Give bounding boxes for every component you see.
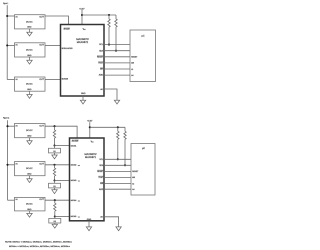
svg-text:A0: A0 xyxy=(132,188,134,191)
svg-text:DC-DC: DC-DC xyxy=(26,129,33,132)
svg-text:MON4/5: MON4/5 xyxy=(62,77,69,80)
svg-text:DC-DC: DC-DC xyxy=(26,203,33,206)
input bus (fig1) xyxy=(6,5,8,79)
microcontroller uC (fig1) xyxy=(130,30,156,82)
wire bus to DC-DC2 IN (fig2) xyxy=(8,164,15,166)
wire bus to DC-DC1 IN xyxy=(7,15,14,17)
input bus (fig2) xyxy=(7,120,9,200)
svg-text:MON2: MON2 xyxy=(71,164,76,167)
ground A0 (fig2) xyxy=(116,227,121,231)
DC-DC converter 2 (fig1) xyxy=(15,43,46,57)
wire RESET (fig1) xyxy=(104,56,130,58)
svg-text:MAX6871: MAX6871 xyxy=(77,41,89,44)
svg-text:Figure 2.: Figure 2. xyxy=(3,117,10,120)
wire SDA (fig2) xyxy=(104,164,131,166)
svg-text:SDA: SDA xyxy=(99,164,103,167)
node divider3 tap junction xyxy=(54,199,56,201)
wire A0 to ground (fig1) xyxy=(104,89,117,100)
ground DC-DC1 (fig1) xyxy=(27,29,32,36)
wire bus to DC-DC1 IN (fig2) xyxy=(8,125,15,127)
wire divider3 node to MON5 xyxy=(55,216,70,218)
svg-text:MR: MR xyxy=(100,68,103,71)
ground DC-DC2 (fig2) xyxy=(27,176,32,183)
wire DC-DC3 OUT to MON4 (fig2) xyxy=(45,199,70,201)
node +3.3V (fig2) xyxy=(87,120,93,139)
svg-text:OUT: OUT xyxy=(39,44,44,47)
wire A0 to ground (fig2) xyxy=(104,217,119,227)
svg-text:R2: R2 xyxy=(53,185,55,188)
wire ADD (fig2) xyxy=(104,188,131,190)
svg-text:OUT: OUT xyxy=(39,162,44,165)
svg-text:GND: GND xyxy=(27,54,32,57)
resistor divider3 top (fig2) xyxy=(54,200,56,217)
svg-text:GND: GND xyxy=(81,92,86,95)
resistor divider3 bottom box (fig2) xyxy=(49,217,61,225)
node rail/R1 junction xyxy=(108,14,110,16)
svg-text:GND: GND xyxy=(27,26,32,29)
ground IC2 GND pin xyxy=(86,221,91,231)
DC-DC converter 3 (fig1) xyxy=(15,77,46,91)
svg-text:MON1–MON3: MON1–MON3 xyxy=(62,47,73,50)
svg-text:MAX6871: MAX6871 xyxy=(85,156,97,159)
svg-text:A0: A0 xyxy=(131,74,133,77)
DC-DC converter 1 (fig1) xyxy=(15,15,46,29)
node junction bus/DC-DC1 xyxy=(6,15,8,17)
svg-text:OUT: OUT xyxy=(39,124,44,127)
svg-text:R2: R2 xyxy=(53,150,55,153)
svg-text:DC-DC: DC-DC xyxy=(26,83,33,86)
ground DC-DC3 (fig1) xyxy=(27,91,32,98)
node divider2 tap junction xyxy=(53,164,55,166)
wire +3.3V rail (fig2) xyxy=(90,126,125,128)
svg-text:UV: UV xyxy=(78,181,80,183)
svg-text:Figure 1.: Figure 1. xyxy=(3,2,9,5)
ground divider3 (fig2) xyxy=(52,224,57,228)
svg-text:R2: R2 xyxy=(54,220,56,223)
svg-text:ADD: ADD xyxy=(99,74,104,77)
svg-text:UV: UV xyxy=(78,217,80,219)
node junction bus/DC-DC2 xyxy=(6,44,8,46)
wire +3.3V rail (fig1) xyxy=(82,14,116,16)
svg-text:MON1: MON1 xyxy=(71,144,76,147)
IC U1 MAX6870/MAX6871 supply supervisor (fig1) xyxy=(61,25,105,97)
svg-text:µC: µC xyxy=(142,35,145,38)
svg-text:NOTE: MONOV = MON1OV, MON2OV,: NOTE: MONOV = MON1OV, MON2OV, MON3OV, MO… xyxy=(5,241,72,244)
svg-text:ADD: ADD xyxy=(99,188,104,191)
resistor divider1 top (fig2) xyxy=(53,126,55,146)
node +3.3V (fig1) xyxy=(79,7,85,24)
svg-text:OUT: OUT xyxy=(39,78,44,81)
DC-DC converter 1 (fig2) xyxy=(15,124,46,138)
node rail/R3 junction (fig2) xyxy=(117,126,119,128)
svg-text:OV: OV xyxy=(78,165,80,167)
ground IC1 GND pin xyxy=(80,96,85,104)
svg-text:+3.3V: +3.3V xyxy=(79,7,85,10)
wire TRST (fig1) xyxy=(104,62,130,64)
wire SCL (fig2) xyxy=(104,158,131,160)
microcontroller uC (fig2) xyxy=(131,144,155,196)
wire divider1 node to MON1 xyxy=(55,145,70,147)
resistor R2 pull-up SDA (fig1) xyxy=(115,15,117,52)
wire ADD (fig1) xyxy=(104,74,130,76)
wire DC-DC3 OUT to MON4/5 xyxy=(45,79,61,81)
svg-text:OV: OV xyxy=(78,200,80,202)
svg-text:OUT: OUT xyxy=(39,16,44,19)
ground DC-DC2 (fig1) xyxy=(27,57,32,64)
svg-text:GND: GND xyxy=(27,173,32,176)
wire DC-DC1 OUT to IC1 top pin xyxy=(45,16,69,25)
svg-text:µC: µC xyxy=(142,147,145,150)
DC-DC converter 2 (fig2) xyxy=(15,162,46,176)
svg-text:MON5: MON5 xyxy=(71,215,76,218)
IC U2 MAX6870/MAX6871 supply supervisor (fig2) xyxy=(70,138,105,221)
ground DC-DC1 (fig2) xyxy=(27,138,32,145)
svg-text:SDA: SDA xyxy=(99,49,103,52)
svg-text:MAXIM: MAXIM xyxy=(72,140,79,143)
DC-DC converter 3 (fig2) xyxy=(15,197,46,211)
wire DC-DC2 OUT to MON2 (fig2) xyxy=(45,164,70,166)
ground DC-DC3 (fig2) xyxy=(27,211,32,217)
resistor divider2 bottom box (fig2) xyxy=(49,181,61,190)
ground A0 (fig1) xyxy=(114,100,119,104)
svg-text:RESET: RESET xyxy=(97,55,104,58)
svg-text:OUT: OUT xyxy=(39,198,44,201)
svg-text:GND: GND xyxy=(27,88,32,91)
resistor R1 pull-up SCL (fig1) xyxy=(108,15,110,46)
node junction bus/DC-DC1 (fig2) xyxy=(6,125,8,127)
wire DC-DC1 OUT to IC2 top pin (fig2) xyxy=(45,126,77,138)
svg-text:GND: GND xyxy=(87,218,92,221)
resistor R4 pull-up SDA (fig2) xyxy=(124,127,126,166)
node junction bus/DC-DC2 (fig2) xyxy=(6,164,8,166)
svg-text:TRST: TRST xyxy=(98,62,103,65)
wire RESET (fig2) xyxy=(104,170,131,172)
wire MR (fig2) xyxy=(104,183,131,185)
resistor R3 pull-up SCL (fig2) xyxy=(117,127,119,160)
svg-text:MAXIM: MAXIM xyxy=(64,28,71,31)
ground divider1 (fig2) xyxy=(52,155,57,159)
svg-text:GND: GND xyxy=(27,135,32,138)
svg-text:RESET: RESET xyxy=(132,170,139,173)
wire MR (fig1) xyxy=(104,68,130,70)
node divider1 tap junction xyxy=(53,125,55,127)
svg-text:MONUV = MON1UV, MON2UV, MON3UV: MONUV = MON1UV, MON2UV, MON3UV, MON4UV, … xyxy=(9,245,70,248)
resistor divider1 bottom box (fig2) xyxy=(49,146,61,156)
wire DC-DC2 OUT to MON1-MON3 xyxy=(45,44,61,46)
wire bus to DC-DC3 IN xyxy=(7,79,14,81)
wire TRST (fig2) xyxy=(104,176,131,178)
ground divider2 (fig2) xyxy=(52,190,57,194)
svg-text:TRST: TRST xyxy=(98,176,103,179)
svg-text:GND: GND xyxy=(27,208,32,211)
wire SDA (fig1) xyxy=(104,50,130,52)
svg-text:MON3: MON3 xyxy=(71,179,76,182)
svg-text:+3.3V: +3.3V xyxy=(87,120,93,123)
svg-text:MON4: MON4 xyxy=(71,199,76,202)
svg-text:MR: MR xyxy=(100,182,103,185)
svg-text:DC-DC: DC-DC xyxy=(26,20,33,23)
svg-text:RESET: RESET xyxy=(97,170,104,173)
resistor divider2 top (fig2) xyxy=(53,165,55,182)
wire SCL (fig1) xyxy=(104,44,130,46)
wire bus to DC-DC2 IN xyxy=(7,44,14,46)
svg-text:RESET: RESET xyxy=(131,56,138,59)
svg-text:DC-DC: DC-DC xyxy=(26,49,33,52)
svg-text:DC-DC: DC-DC xyxy=(26,167,33,170)
wire bus to DC-DC3 IN (fig2) xyxy=(8,199,15,201)
wire divider2 node to MON3 xyxy=(55,180,70,182)
